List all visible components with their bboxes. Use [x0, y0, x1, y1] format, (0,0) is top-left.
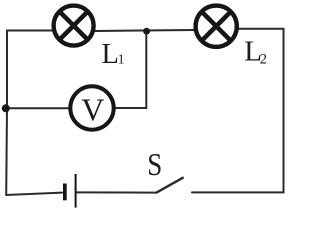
svg-text:2: 2 — [260, 51, 267, 67]
svg-text:L: L — [102, 39, 119, 70]
svg-text:S: S — [147, 148, 162, 182]
svg-text:1: 1 — [118, 52, 125, 67]
svg-text:V: V — [81, 92, 104, 128]
